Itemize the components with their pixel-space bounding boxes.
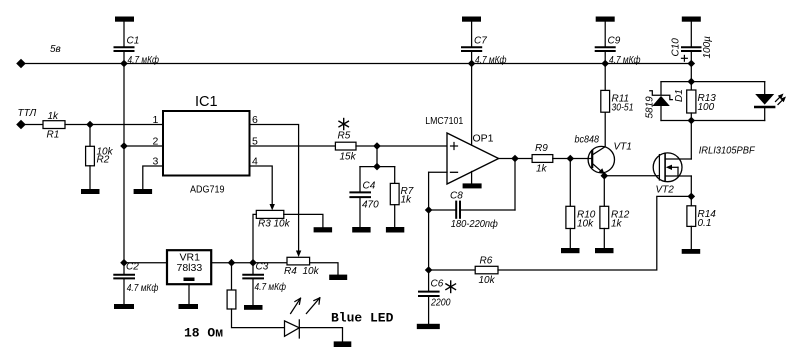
wire R12 to ground xyxy=(603,229,605,249)
svg-text:IC1: IC1 xyxy=(195,94,218,110)
plus input mark xyxy=(451,143,458,150)
wire R3 left to C3 node xyxy=(253,214,256,262)
regulator VR1 body xyxy=(167,250,211,284)
wire pin6 to R4 wiper xyxy=(250,125,299,252)
svg-text:15k: 15k xyxy=(340,152,357,163)
capacitor C1 top bar xyxy=(115,17,134,22)
VT1 emitter arrowhead xyxy=(599,168,605,174)
wire R10 to ground xyxy=(569,229,571,249)
wire opamp supply xyxy=(471,64,473,146)
wire C10 node down to LED block xyxy=(690,64,692,82)
wire R12 down xyxy=(603,176,605,207)
wire R2 tap down xyxy=(89,125,91,147)
LED blue arrows xyxy=(291,298,320,314)
resistor R12 xyxy=(600,206,609,228)
wire 5v column xyxy=(123,64,125,263)
svg-text:4.7 мКф: 4.7 мКф xyxy=(127,282,159,294)
polarity plus of C10 xyxy=(682,55,688,61)
ground (R12) xyxy=(595,248,614,253)
junction R10 tap xyxy=(567,155,575,163)
svg-text:C10: C10 xyxy=(671,38,682,57)
wire R4 right to ground xyxy=(310,263,338,275)
VT1 base bar xyxy=(591,151,593,167)
VT1 collector xyxy=(592,112,605,155)
potentiometer R3 xyxy=(256,210,284,218)
junction filter node xyxy=(373,163,381,171)
ground (R4) xyxy=(329,275,347,280)
ground (VR1) xyxy=(179,304,199,309)
svg-text:R4: R4 xyxy=(284,266,297,277)
svg-text:LMC7101: LMC7101 xyxy=(425,115,463,127)
svg-text:18 Ом: 18 Ом xyxy=(184,326,223,341)
svg-text:180-220пф: 180-220пф xyxy=(451,218,499,230)
svg-text:ТТЛ: ТТЛ xyxy=(18,108,37,119)
svg-text:OP1: OP1 xyxy=(473,133,494,145)
wire TTL to R1 xyxy=(21,124,43,126)
svg-text:C6: C6 xyxy=(431,279,444,290)
svg-text:D1: D1 xyxy=(674,89,685,102)
wire emitter to VT2 gate xyxy=(604,175,659,177)
ground (R7) xyxy=(386,227,404,233)
svg-text:1k: 1k xyxy=(536,164,548,175)
wire R5 to opamp plus xyxy=(356,145,447,147)
resistor R14 xyxy=(687,206,696,227)
junction R13 top xyxy=(688,78,696,86)
resistor R5 xyxy=(335,142,356,150)
diode D1 triangle xyxy=(652,96,670,106)
IC IC1 body xyxy=(163,111,250,176)
svg-text:C2: C2 xyxy=(126,262,139,273)
wire D1 anode xyxy=(660,106,662,121)
svg-text:4.7 мКф: 4.7 мКф xyxy=(128,54,160,66)
wire R7 to ground xyxy=(394,205,396,227)
svg-text:100µ: 100µ xyxy=(702,36,713,59)
capacitor C10 electrolytic xyxy=(682,22,701,64)
junction C1/rail xyxy=(120,60,128,68)
capacitor C8 xyxy=(456,202,460,218)
transistor VT2 circle xyxy=(653,153,682,182)
capacitor C10 top bar xyxy=(682,17,701,22)
junction R13 bottom xyxy=(688,117,696,125)
wire opamp minus input xyxy=(429,171,447,173)
svg-text:1k: 1k xyxy=(401,195,413,206)
svg-text:2200: 2200 xyxy=(430,298,451,309)
resistor R2 xyxy=(86,146,95,166)
capacitor C2 xyxy=(114,263,134,304)
svg-text:R9: R9 xyxy=(535,143,548,154)
wire R13 top stub xyxy=(690,82,692,90)
LED indicator top stub xyxy=(764,82,766,94)
capacitor C1 xyxy=(115,22,134,64)
wire C8 feedback horizontal right xyxy=(461,209,515,211)
svg-text:C3: C3 xyxy=(256,262,269,273)
wire 18ohm to LED xyxy=(232,309,285,328)
wire R13 bottom stub xyxy=(690,113,692,121)
svg-text:C8: C8 xyxy=(450,191,463,202)
ground (C3) xyxy=(244,305,263,310)
svg-text:4.7 мКф: 4.7 мКф xyxy=(609,54,641,66)
ground (R3) xyxy=(314,227,333,232)
svg-text:1k: 1k xyxy=(611,219,623,230)
capacitor C9 xyxy=(596,22,615,64)
junction C7/rail xyxy=(468,60,476,68)
svg-text:10k: 10k xyxy=(479,275,496,286)
LED indicator triangle xyxy=(755,94,774,105)
capacitor C4 xyxy=(350,167,370,227)
wire R14 to ground xyxy=(690,226,692,249)
ground (R2) xyxy=(81,189,100,194)
VT2 gate bar xyxy=(658,155,660,180)
svg-text:C4: C4 xyxy=(363,181,376,192)
svg-text:4.7 мКф: 4.7 мКф xyxy=(255,281,287,293)
capacitor C7 top bar xyxy=(462,17,481,22)
transistor VT1 circle xyxy=(588,146,614,172)
resistor R1 xyxy=(43,121,65,129)
junction C9/rail xyxy=(601,60,609,68)
svg-text:C9: C9 xyxy=(608,36,621,47)
wire R7 down xyxy=(394,167,396,184)
diode D1 schottky bar xyxy=(650,91,673,100)
ground (R14) xyxy=(682,249,701,254)
ground (op-amp) xyxy=(463,183,482,188)
svg-text:1: 1 xyxy=(153,114,159,126)
junction C10/rail xyxy=(688,60,696,68)
resistor R10 xyxy=(566,206,575,228)
wire R10 tap down xyxy=(569,159,571,207)
svg-text:5819: 5819 xyxy=(645,96,656,119)
junction R2 tap xyxy=(86,121,94,129)
wire LED block bottom xyxy=(661,120,765,122)
VT2 channel bar xyxy=(664,154,666,181)
wire source to R14 xyxy=(690,196,692,205)
wire VR1 output xyxy=(211,262,287,264)
wire IC1 pin3 to ground xyxy=(143,166,163,189)
minus input mark xyxy=(451,171,458,173)
svg-text:bc848: bc848 xyxy=(575,135,600,146)
wire pin4 to R3 wiper xyxy=(250,166,273,205)
junction VR1 input node xyxy=(120,259,128,267)
wire inverting node vertical xyxy=(428,172,430,270)
svg-text:C1: C1 xyxy=(127,36,140,47)
resistor 18 Ohm xyxy=(227,290,236,309)
resistor R7 xyxy=(390,183,399,204)
wire VR1 to ground xyxy=(188,284,190,304)
wire pin5 to R5 xyxy=(250,145,336,147)
VT2 drain lead xyxy=(665,158,691,160)
VT2 body arrow xyxy=(666,165,678,176)
capacitor C3 xyxy=(243,263,263,305)
svg-text:3: 3 xyxy=(153,156,159,168)
svg-text:Blue LED: Blue LED xyxy=(331,311,394,326)
op-amp OP1 triangle xyxy=(447,133,499,184)
svg-text:VT1: VT1 xyxy=(614,142,632,153)
svg-text:R3: R3 xyxy=(258,219,271,230)
wire LED block top xyxy=(661,81,765,83)
resistor R6 xyxy=(475,266,498,274)
junction 18ohm tap xyxy=(228,259,236,267)
wire filter node horizontal xyxy=(360,166,395,168)
wire opamp output xyxy=(499,158,532,160)
svg-text:2: 2 xyxy=(153,136,159,148)
arrowhead R4 wiper xyxy=(296,251,301,258)
wire LED to ground xyxy=(299,328,342,342)
junction VT1 emitter node xyxy=(601,172,609,180)
wire R2 to ground xyxy=(89,166,91,189)
svg-text:10k: 10k xyxy=(577,219,594,230)
capacitor C7 xyxy=(462,22,481,64)
wire C8 to inverting node xyxy=(429,209,456,211)
arrowhead R3 wiper xyxy=(270,204,275,210)
svg-text:VT2: VT2 xyxy=(656,185,675,196)
LED blue (diode outline) xyxy=(285,320,300,338)
LED indicator arrows xyxy=(776,94,787,105)
ground (R10) xyxy=(561,248,580,253)
junction C8/inverting xyxy=(425,206,433,214)
svg-text:R1: R1 xyxy=(47,130,60,141)
VR1 tab mark xyxy=(184,278,195,282)
svg-text:R5: R5 xyxy=(338,131,351,142)
junction C3/R3 node xyxy=(249,259,257,267)
potentiometer R4 xyxy=(287,257,310,265)
ground (C6) xyxy=(417,324,440,329)
svg-text:10k: 10k xyxy=(274,219,291,230)
ground (pin3) xyxy=(134,189,153,194)
wire C8 feedback vertical xyxy=(514,159,516,211)
capacitor C6 xyxy=(419,270,439,324)
wire R3 right to ground xyxy=(284,214,323,227)
LED indicator bottom stub xyxy=(764,107,766,121)
junction pin2 tap xyxy=(120,142,128,150)
svg-text:1k: 1k xyxy=(48,111,60,122)
svg-text:30-51: 30-51 xyxy=(612,103,634,114)
asterisk (R5) xyxy=(339,119,348,130)
ground (blue LED) xyxy=(334,341,352,347)
ground (C2) xyxy=(114,304,134,309)
ground (C4) xyxy=(352,227,370,233)
wire 5v rail xyxy=(21,63,691,65)
svg-text:470: 470 xyxy=(362,200,379,211)
svg-text:R2: R2 xyxy=(97,155,110,166)
asterisk (C6) xyxy=(446,281,456,293)
wire drain up xyxy=(690,121,692,160)
wire 18ohm resistor down xyxy=(231,263,233,290)
node 5v terminal xyxy=(16,59,26,69)
svg-text:10k: 10k xyxy=(303,266,320,277)
wire C6 node to R6 xyxy=(429,269,476,271)
junction C6 node xyxy=(425,266,433,274)
wire source down xyxy=(690,176,692,196)
VT2 source lead xyxy=(665,175,691,177)
wire IC1 pin2 xyxy=(124,145,163,147)
svg-text:5в: 5в xyxy=(50,44,61,55)
svg-text:4.7 мКф: 4.7 мКф xyxy=(475,54,507,66)
LED indicator cathode bar xyxy=(755,106,774,108)
svg-text:IRLI3105PBF: IRLI3105PBF xyxy=(699,146,756,157)
svg-text:ADG719: ADG719 xyxy=(190,184,225,196)
resistor R9 xyxy=(532,155,553,163)
wire to VR1 input xyxy=(124,262,167,264)
capacitor C9 top bar xyxy=(596,17,615,22)
svg-text:R6: R6 xyxy=(480,256,493,267)
junction R5 output xyxy=(373,142,381,150)
wire opamp ground stub xyxy=(471,172,473,184)
junction source node xyxy=(688,193,696,201)
junction output node xyxy=(511,155,519,163)
svg-text:78l33: 78l33 xyxy=(177,262,203,274)
svg-text:100: 100 xyxy=(698,102,715,113)
svg-text:C7: C7 xyxy=(474,36,487,47)
svg-text:0.1: 0.1 xyxy=(698,218,712,229)
node TTL terminal xyxy=(16,120,26,130)
wire R1 to IC1 pin1 xyxy=(65,124,163,126)
resistor R11 xyxy=(601,90,610,112)
wire R11 to rail xyxy=(604,64,606,91)
VT1 emitter xyxy=(592,163,603,173)
wire D1 cathode xyxy=(660,82,662,95)
wire filter tap down xyxy=(376,146,378,167)
wire R9 to VT1 base xyxy=(553,158,592,160)
wire R6 to source sense xyxy=(498,196,691,270)
resistor R13 xyxy=(687,90,696,113)
